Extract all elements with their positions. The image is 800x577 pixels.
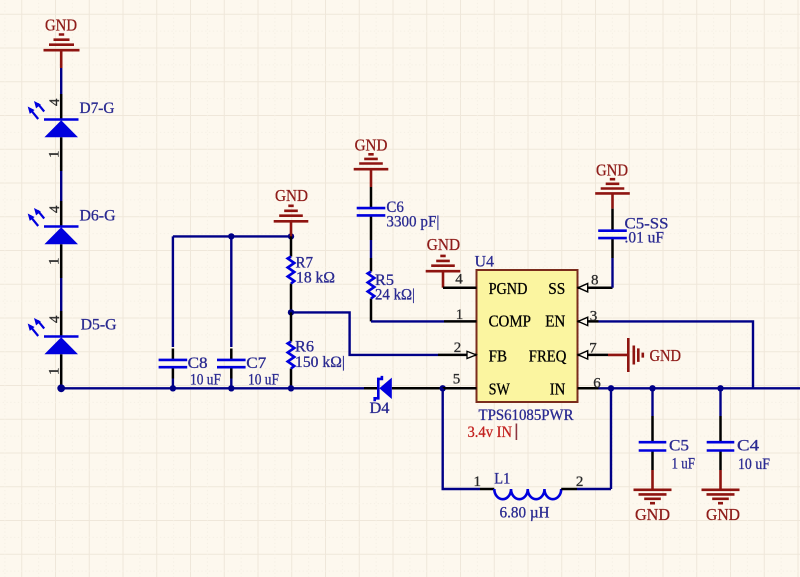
junction at LED bottom <box>57 384 65 392</box>
svg-text:10 uF: 10 uF <box>248 372 279 389</box>
svg-text:7: 7 <box>589 341 597 357</box>
svg-text:1: 1 <box>47 368 63 376</box>
svg-text:FREQ: FREQ <box>529 346 567 365</box>
pin 6 IN <box>550 376 602 399</box>
svg-text:150 kΩ|: 150 kΩ| <box>295 354 345 371</box>
svg-text:1: 1 <box>47 258 63 266</box>
svg-text:SS: SS <box>548 279 565 298</box>
capacitor C7 <box>217 236 279 388</box>
svg-text:3.4v IN: 3.4v IN <box>468 424 513 441</box>
junction at R7 top <box>288 233 294 239</box>
pin 8 SS <box>548 273 612 298</box>
wire C5-SS to SS pin 8 <box>611 258 613 288</box>
junction at C8 bottom <box>170 385 176 391</box>
pin 4 PGND <box>443 272 527 299</box>
svg-text:U4: U4 <box>475 254 495 271</box>
inductor L1 <box>443 388 611 521</box>
pin 2 FB <box>438 340 507 365</box>
junction at SW / L1 <box>440 385 446 391</box>
wire bottom net (LED anode to D4 to SW) <box>61 387 364 389</box>
power port GND (below C5) <box>634 470 672 524</box>
svg-text:COMP: COMP <box>489 312 531 331</box>
pin 5 SW <box>443 372 511 399</box>
svg-text:GND: GND <box>596 161 628 180</box>
svg-text:1: 1 <box>473 474 481 490</box>
svg-text:D5-G: D5-G <box>81 317 117 334</box>
pin 1 COMP <box>444 307 531 331</box>
svg-text:PGND: PGND <box>489 279 528 298</box>
svg-text:6.80 µH: 6.80 µH <box>500 505 550 522</box>
junction R7/R6 <box>288 309 294 315</box>
pin 3 EN <box>545 309 598 331</box>
svg-text:1: 1 <box>456 307 464 323</box>
junction R6 bottom <box>288 385 294 391</box>
svg-text:10 uF: 10 uF <box>738 456 770 473</box>
wire top net (C8/C7/R7/GND) <box>173 235 291 237</box>
svg-text:IN: IN <box>550 380 566 399</box>
svg-text:C7: C7 <box>246 355 266 372</box>
svg-text:8: 8 <box>591 273 599 289</box>
LED D7-G <box>28 94 115 171</box>
power port GND (above C6) <box>354 136 389 188</box>
capacitor C4 <box>707 388 771 473</box>
svg-text:18 kΩ: 18 kΩ <box>296 270 335 287</box>
LED D5-G <box>28 311 117 388</box>
op-amp U4 body TPS61085PWR <box>468 254 578 442</box>
svg-text:TPS61085PWR: TPS61085PWR <box>479 407 575 424</box>
power port GND (at PGND pin 4) <box>426 235 461 288</box>
resistor R6 <box>288 312 345 388</box>
junction at L1 right riser <box>608 385 614 391</box>
wire D6 to D5 <box>60 278 62 311</box>
svg-text:D4: D4 <box>370 400 390 417</box>
capacitor C8 <box>159 236 222 388</box>
svg-text:10 uF: 10 uF <box>190 372 221 389</box>
power port GND (below C4) <box>702 470 741 524</box>
wire C6 to R5 <box>370 240 372 258</box>
LED D6-G <box>28 201 116 278</box>
svg-text:1: 1 <box>47 151 63 159</box>
svg-text:GND: GND <box>427 235 460 254</box>
wire R5 to COMP pin 1 <box>371 320 444 322</box>
svg-text:24 kΩ|: 24 kΩ| <box>375 287 415 304</box>
junction at C5 <box>649 385 655 391</box>
power port GND (at FREQ pin 7, sideways) <box>608 338 681 372</box>
svg-text:1 uF: 1 uF <box>672 456 696 473</box>
resistor R7 <box>288 236 335 312</box>
svg-text:D7-G: D7-G <box>80 100 115 117</box>
wire D7 to D6 <box>60 171 62 201</box>
wire IN net (pin 6 to right edge) <box>599 387 800 389</box>
junction at C7 bottom <box>228 385 234 391</box>
svg-text:3: 3 <box>590 309 598 325</box>
svg-text:GND: GND <box>635 505 670 524</box>
svg-text:4: 4 <box>47 98 63 106</box>
wire EN pin 3 to IN net <box>599 321 754 388</box>
svg-text:2: 2 <box>454 340 462 356</box>
svg-text:R6: R6 <box>295 339 314 356</box>
svg-text:4: 4 <box>47 205 63 213</box>
svg-text:EN: EN <box>545 312 565 331</box>
pin 7 FREQ <box>529 341 608 366</box>
junction at C7 top <box>228 233 234 239</box>
power port GND (top of LED chain) <box>44 16 80 69</box>
svg-text:3300 pF|: 3300 pF| <box>386 214 439 231</box>
capacitor C6 <box>357 187 440 240</box>
svg-text:5: 5 <box>453 372 461 388</box>
svg-text:C8: C8 <box>188 355 208 372</box>
svg-text:FB: FB <box>489 346 507 365</box>
capacitor C5-SS <box>598 209 668 258</box>
svg-text:GND: GND <box>275 186 308 205</box>
svg-text:GND: GND <box>706 505 740 524</box>
svg-text:C4: C4 <box>737 438 759 455</box>
junction at C4 <box>717 385 723 391</box>
wire GND1 to D7 pin 4 <box>60 68 62 94</box>
svg-text:GND: GND <box>45 16 77 35</box>
wire R7/R6 junction to FB <box>291 312 438 355</box>
power port GND (above C5-SS) <box>595 161 630 209</box>
svg-text:GND: GND <box>355 136 388 155</box>
svg-text:4: 4 <box>47 315 63 323</box>
svg-text:L1: L1 <box>494 471 510 488</box>
diode D4 (schottky) <box>364 376 443 417</box>
capacitor C5 <box>639 388 696 472</box>
svg-text:.01 uF: .01 uF <box>625 229 665 246</box>
svg-text:SW: SW <box>489 380 511 399</box>
svg-text:2: 2 <box>576 474 584 490</box>
power port GND (above R7) <box>274 186 309 236</box>
svg-text:C5: C5 <box>669 438 689 455</box>
svg-text:GND: GND <box>650 346 682 365</box>
resistor R5 <box>368 258 415 321</box>
svg-text:D6-G: D6-G <box>80 208 116 225</box>
svg-text:4: 4 <box>455 272 463 288</box>
